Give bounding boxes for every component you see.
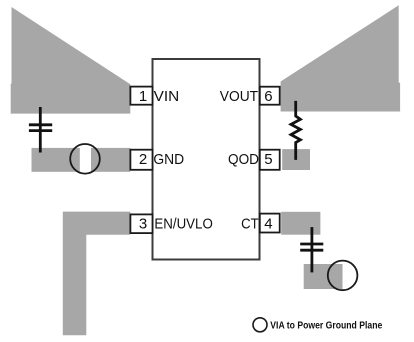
CT capacitor C2 bottom plate [300,249,323,252]
svg-text:4: 4 [264,216,272,233]
svg-text:3: 3 [139,216,147,233]
svg-text:EN/UVLO: EN/UVLO [154,216,212,233]
GND trace segment left of via [32,148,80,172]
pin 6 box [260,87,280,105]
input capacitor C1 lead [39,107,42,153]
input capacitor C1 top plate [29,123,52,126]
CT capacitor C2 top plate [300,243,323,246]
QOD pull-down resistor R1 [291,101,300,160]
copper plane VIN (input power plane, top-left) [11,7,131,114]
svg-text:VIN: VIN [154,88,180,105]
svg-text:CT: CT [241,216,259,233]
svg-text:VIA to Power Ground Plane: VIA to Power Ground Plane [270,320,382,332]
svg-text:QOD: QOD [228,151,259,168]
QOD pad (right of pin 5) [282,149,310,170]
input capacitor C1 bottom plate [29,129,52,132]
CT capacitor C2 lead [310,227,313,272]
CT pad (right of pin 4) [281,212,320,235]
EN/UVLO trace (L-shaped) [63,212,131,336]
svg-text:1: 1 [139,88,147,105]
copper plane VOUT (output power plane, top-right) [281,5,401,111]
svg-text:2: 2 [139,151,147,168]
svg-text:5: 5 [264,151,272,168]
pin 2 box [130,150,152,170]
pin 5 box [260,150,280,170]
svg-text:GND: GND [153,151,184,168]
IC U1 body [153,59,260,260]
pin 3 box [130,214,152,233]
legend via symbol [253,318,267,332]
via to ground plane at CT capacitor [328,261,358,291]
svg-text:VOUT: VOUT [220,88,258,105]
GND trace segment right of via [91,148,130,172]
via to ground plane at GND trace [70,144,100,174]
pin 1 box [130,87,152,105]
pin 4 box [260,214,280,233]
CT capacitor ground pad [304,264,343,289]
svg-text:6: 6 [264,88,272,105]
